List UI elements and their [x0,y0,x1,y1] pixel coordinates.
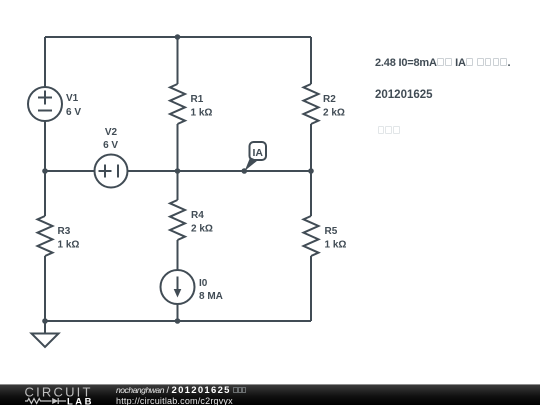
svg-text:V2: V2 [105,127,118,138]
svg-text:R5: R5 [325,226,338,237]
svg-text:1 kΩ: 1 kΩ [58,240,80,251]
svg-text:I0: I0 [199,278,208,289]
svg-text:2 kΩ: 2 kΩ [323,108,345,119]
svg-text:1 kΩ: 1 kΩ [191,108,213,119]
svg-text:R2: R2 [323,94,336,105]
svg-text:LAB: LAB [67,396,94,405]
svg-text:IA: IA [253,147,264,159]
svg-text:R3: R3 [58,226,71,237]
svg-text:R1: R1 [191,94,204,105]
svg-text:8 MA: 8 MA [199,291,223,302]
svg-text:V1: V1 [66,93,79,104]
svg-text:6 V: 6 V [103,140,118,151]
svg-text:2 kΩ: 2 kΩ [191,224,213,235]
svg-text:1 kΩ: 1 kΩ [325,240,347,251]
svg-text:6 V: 6 V [66,107,81,118]
svg-text:R4: R4 [191,210,204,221]
